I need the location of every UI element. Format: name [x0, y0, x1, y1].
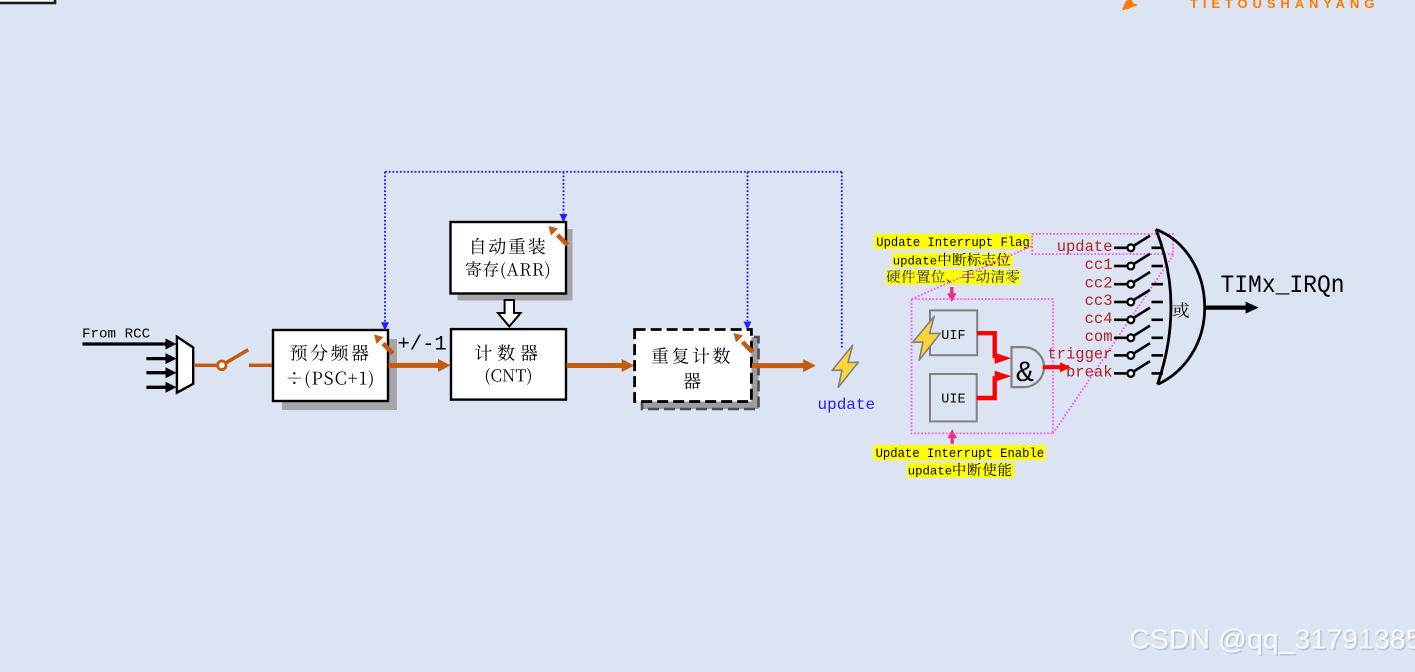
- clock gate switch: [218, 350, 249, 370]
- UEV drop to ARR: [560, 172, 568, 223]
- clock source mux: [177, 337, 193, 393]
- svg-text:update: update: [1057, 238, 1113, 256]
- UEV drop to prescaler: [381, 172, 389, 331]
- top-left window fragment: [0, 0, 55, 3]
- label update中断使能: [907, 463, 1015, 479]
- label com: [1085, 328, 1113, 346]
- label TIMx_IRQn: [1221, 271, 1345, 300]
- label break: [1066, 364, 1113, 382]
- label 硬件置位、手动清零: [886, 270, 1020, 285]
- repetition counter box: [635, 330, 752, 402]
- svg-text:break: break: [1066, 364, 1113, 382]
- svg-text:+/-1: +/-1: [398, 334, 447, 357]
- wire UIF to AND: [977, 333, 1011, 364]
- svg-text:cc3: cc3: [1085, 292, 1113, 310]
- label From RCC: [82, 326, 150, 342]
- callout diagonal left: [912, 246, 1033, 299]
- svg-text:From RCC: From RCC: [82, 326, 150, 342]
- UIF/UIE detail frame: [912, 299, 1054, 433]
- ARR shadow: [458, 229, 573, 301]
- text 器: [684, 373, 701, 389]
- text 重复计数: [652, 347, 730, 364]
- mux input arrow 4: [146, 382, 176, 393]
- svg-text:update: update: [893, 255, 937, 269]
- svg-text:cc1: cc1: [1085, 256, 1113, 274]
- OR input stub cc1: [1152, 265, 1164, 268]
- wire OR output: [1206, 302, 1259, 314]
- svg-text:Update Interrupt Flag: Update Interrupt Flag: [876, 236, 1030, 250]
- wire repetition counter to update event: [752, 359, 816, 372]
- switch cc1: [1114, 254, 1150, 270]
- wire UIE to AND: [977, 371, 1012, 398]
- svg-text:trigger: trigger: [1047, 346, 1112, 364]
- UEV drop to update event: [841, 172, 843, 348]
- svg-text:cc2: cc2: [1085, 274, 1113, 292]
- label update: [1057, 238, 1113, 256]
- callout diagonal right: [1053, 256, 1173, 434]
- label update中断标志位: [892, 253, 1013, 269]
- svg-text:com: com: [1085, 328, 1113, 346]
- text 计数器: [475, 344, 537, 361]
- label Update Interrupt Flag: [874, 234, 1031, 250]
- svg-text:TIETOUSHANYANG: TIETOUSHANYANG: [1190, 0, 1379, 11]
- svg-text:TIMx_IRQn: TIMx_IRQn: [1221, 271, 1345, 300]
- pointer arrow at repetition counter corner: [734, 333, 753, 352]
- label cc3: [1085, 292, 1113, 310]
- svg-text:update: update: [908, 465, 952, 479]
- svg-text:update: update: [818, 396, 876, 414]
- OR input stub cc3: [1152, 301, 1164, 304]
- svg-text:UIF: UIF: [941, 329, 965, 344]
- prescaler box PSC: [273, 330, 388, 401]
- text 预分频器: [290, 344, 368, 361]
- label Update Interrupt Enable: [873, 445, 1045, 461]
- wire AND output: [1043, 362, 1071, 372]
- OR input stub break: [1152, 372, 1164, 375]
- OR input stub cc2: [1152, 283, 1164, 286]
- switch cc2: [1114, 272, 1150, 288]
- svg-text:CSDN @qq_31791385: CSDN @qq_31791385: [1130, 623, 1415, 655]
- switch update: [1114, 236, 1150, 252]
- UIF register box: [930, 310, 977, 355]
- label update (blue): [818, 396, 876, 414]
- svg-text:UIE: UIE: [941, 393, 965, 408]
- svg-text:Update Interrupt Enable: Update Interrupt Enable: [876, 447, 1045, 461]
- UIE register box: [930, 374, 977, 421]
- text ÷(PSC+1): [288, 370, 373, 388]
- label cc4: [1085, 310, 1113, 328]
- counter box CNT: [451, 329, 566, 400]
- wire prescaler to counter: [389, 359, 451, 372]
- wire switch to prescaler: [249, 364, 273, 368]
- label trigger: [1047, 346, 1112, 364]
- pointer arrow at ARR corner: [549, 226, 568, 245]
- update event lightning: [832, 345, 858, 387]
- svg-text:cc4: cc4: [1085, 310, 1113, 328]
- OR gate label 或: [1173, 302, 1189, 318]
- svg-text:&: &: [1016, 357, 1034, 391]
- watermark CSDN: [1130, 623, 1415, 655]
- OR input stub update: [1152, 247, 1164, 250]
- RCC clock main arrow: [83, 339, 177, 350]
- callout arrow into UIE frame: [947, 429, 957, 444]
- OR gate: [1156, 229, 1205, 384]
- callout arrow into UIF frame: [947, 287, 957, 302]
- text 寄存(ARR): [466, 261, 549, 279]
- logo text TIETOUSHANYANG: [1190, 0, 1379, 11]
- OR input stub com: [1152, 337, 1164, 340]
- AND gate: [1012, 347, 1045, 391]
- switch com: [1114, 326, 1150, 342]
- mux input arrow 3: [146, 367, 176, 378]
- label +/-1: [398, 334, 447, 357]
- pointer arrow at prescaler corner: [374, 335, 393, 354]
- UEV feedback wire horizontal: [385, 171, 842, 173]
- wire counter to repetition counter: [567, 359, 635, 372]
- wire mux to switch: [194, 364, 217, 368]
- label cc2: [1085, 274, 1113, 292]
- label cc1: [1085, 256, 1113, 274]
- text 自动重装: [472, 238, 545, 255]
- UIF lightning: [913, 316, 941, 360]
- logo pen icon: [1122, 0, 1138, 10]
- repetition counter shadow: [642, 337, 759, 409]
- UEV drop to repetition counter: [744, 172, 752, 330]
- auto-reload box ARR: [451, 222, 567, 294]
- update row frame: [1032, 234, 1173, 254]
- text (CNT): [486, 368, 531, 385]
- block arrow ARR to CNT: [498, 300, 521, 327]
- switch cc4: [1114, 308, 1150, 324]
- prescaler shadow: [282, 339, 397, 410]
- mux input arrow 2: [146, 353, 176, 364]
- OR input stub cc4: [1152, 319, 1164, 322]
- OR input stub trigger: [1152, 354, 1164, 357]
- switch break: [1114, 361, 1150, 377]
- switch trigger: [1114, 343, 1150, 359]
- switch cc3: [1114, 290, 1150, 306]
